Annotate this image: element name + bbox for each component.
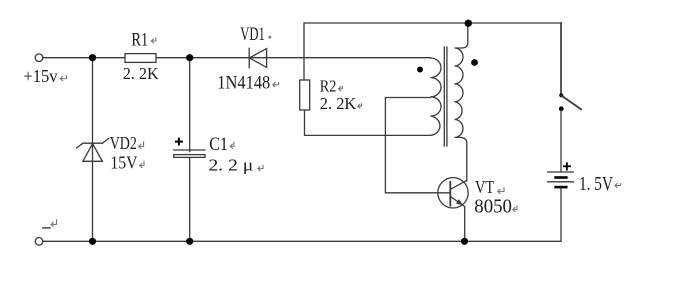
node junction bottom-emitter xyxy=(461,238,468,245)
terminal minus xyxy=(35,238,43,246)
transformer secondary winding xyxy=(455,24,468,181)
svg-text:2. 2K: 2. 2K xyxy=(320,94,357,113)
node junction bottom-C1 xyxy=(186,238,193,245)
resistor R2 xyxy=(300,80,310,110)
wire C1 branch vertical xyxy=(189,58,191,152)
svg-text:2. 2 μ: 2. 2 μ xyxy=(209,156,254,175)
svg-text:C1: C1 xyxy=(209,135,228,155)
battery 1.5V xyxy=(548,172,574,188)
dot after VD1 xyxy=(268,36,271,39)
wire main top xyxy=(43,57,431,59)
return marks (word CR symbols) xyxy=(51,36,620,227)
wire emitter down xyxy=(464,207,466,242)
wire R2 bottom to winding bottom xyxy=(305,110,431,135)
node junction main-VD2 xyxy=(89,54,96,61)
C1 plus sign xyxy=(176,139,182,145)
wire tap to base xyxy=(385,98,450,193)
svg-text:R2: R2 xyxy=(320,77,337,96)
primary phase dot xyxy=(417,67,423,73)
switch xyxy=(560,23,562,95)
transformer primary winding xyxy=(431,58,442,135)
wire top rail xyxy=(304,23,561,80)
svg-text:VD1: VD1 xyxy=(240,25,265,45)
svg-text:VD2: VD2 xyxy=(110,133,137,153)
svg-text:+15v: +15v xyxy=(23,66,57,86)
minus label near lower terminal xyxy=(43,227,50,229)
wire battery to bottom rail xyxy=(560,188,562,241)
resistor R1 xyxy=(125,54,156,63)
svg-text:2. 2K: 2. 2K xyxy=(123,64,160,83)
zener diode VD2 xyxy=(77,138,109,161)
secondary phase dot xyxy=(471,59,478,66)
svg-text:1. 5V: 1. 5V xyxy=(579,173,613,195)
svg-text:R1: R1 xyxy=(131,30,148,51)
diode VD1 xyxy=(249,48,266,67)
node junction bottom-VD2 xyxy=(89,238,96,245)
node junction main-C1 xyxy=(186,54,193,61)
wire VD2 branch vertical xyxy=(92,58,94,242)
transistor VT xyxy=(438,178,468,208)
transformer core xyxy=(443,47,445,146)
svg-text:15V: 15V xyxy=(110,152,137,172)
capacitor C1 xyxy=(174,150,205,157)
wire bottom rail xyxy=(43,240,561,242)
terminal +15v xyxy=(35,54,43,62)
svg-text:1N4148: 1N4148 xyxy=(217,74,270,94)
svg-text:8050: 8050 xyxy=(474,195,512,217)
node junction top rail-secondary xyxy=(465,20,472,27)
battery plus sign xyxy=(564,163,570,169)
svg-text:VT: VT xyxy=(475,177,494,197)
